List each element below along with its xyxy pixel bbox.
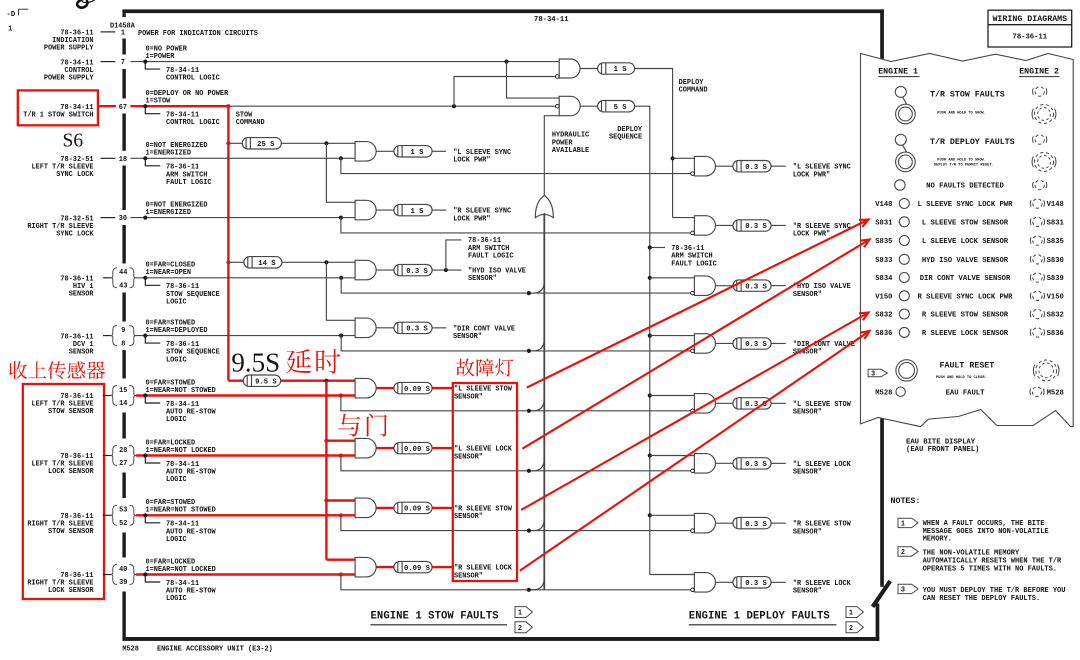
junction HIV-leader — [143, 276, 147, 280]
svg-text:ENGINE 2: ENGINE 2 — [1019, 68, 1059, 77]
svg-text:DIR CONT VALVE SENSOR: DIR CONT VALVE SENSOR — [920, 275, 1011, 283]
svg-text:0.3 S: 0.3 S — [745, 341, 767, 349]
pins 9/8 DCV 1 sensor — [111, 326, 117, 346]
svg-text:40: 40 — [119, 566, 127, 574]
and gate right bank "L SLEEVE STOW — [694, 394, 715, 414]
svg-text:ENGINE 1: ENGINE 1 — [878, 68, 918, 77]
junction stow-leader — [143, 104, 147, 108]
svg-text:SENSOR": SENSOR" — [454, 393, 483, 401]
junction sensor leader y574.5 — [143, 572, 147, 576]
annotation CJK fault lamp — [456, 358, 474, 376]
bubble U1 lower input — [556, 75, 560, 79]
svg-text:0.3 S: 0.3 S — [745, 223, 767, 231]
or gate hydraulic power — [535, 195, 553, 217]
timer 1 S (R sync) — [394, 204, 432, 215]
wire top input right gate y515.3 — [650, 514, 695, 516]
junction pin30-leader — [143, 216, 147, 220]
red highlight box fault lamps — [453, 383, 517, 581]
note flag 2 — [898, 547, 918, 556]
junction deploy seq tap y335.6 — [648, 334, 652, 338]
svg-text:(EAU FRONT PANEL): (EAU FRONT PANEL) — [906, 446, 979, 454]
wire DCV row — [136, 335, 355, 337]
junction deploy seq tap y277.8 — [648, 276, 652, 280]
svg-text:18: 18 — [119, 156, 127, 164]
timer 0.09 S #4 — [394, 561, 432, 572]
timer 1 S (deploy cmd) — [598, 63, 635, 74]
timer 0.3 S (dir) — [394, 322, 432, 333]
arc merge into OR line y410.8 — [531, 398, 544, 411]
svg-text:WHEN A FAULT OCCURS, THE BITE: WHEN A FAULT OCCURS, THE BITE — [923, 520, 1045, 528]
wire gate out dir — [376, 327, 394, 329]
arc merge into OR line y589.8 — [531, 577, 544, 590]
red junction feed Rstow — [324, 498, 328, 502]
ENGINE2 lamp deploy (dashed) — [1035, 135, 1044, 144]
timer 0.3 S right #5 — [733, 398, 771, 409]
leader arm switch fault logic — [446, 240, 462, 270]
bubble right gate y574.5 — [691, 588, 695, 592]
svg-text:S831: S831 — [875, 219, 893, 227]
branch HIV row — [341, 278, 692, 293]
red arrow L lock to S835 — [522, 240, 869, 449]
svg-text:53: 53 — [119, 507, 127, 515]
wire OR input line — [543, 213, 545, 590]
note flag 1 (deploy) — [846, 607, 863, 618]
svg-text:LOGIC: LOGIC — [166, 299, 187, 307]
svg-text:R SLEEVE LOCK SENSOR: R SLEEVE LOCK SENSOR — [922, 330, 1009, 338]
junction pin18-leader — [143, 156, 147, 160]
svg-text:V148: V148 — [875, 201, 892, 209]
svg-text:EAU BITE DISPLAY: EAU BITE DISPLAY — [906, 438, 976, 446]
svg-text:3: 3 — [901, 587, 905, 595]
red junction branch y515.3 — [339, 513, 343, 517]
note flag 1 (stow) — [515, 607, 532, 618]
pins 15/14 LEFT T/R SLEEVE STOW SENSOR — [111, 386, 117, 406]
bubble right gate y515.3 — [691, 529, 695, 533]
pins 44/43 HIV 1 sensor — [111, 268, 117, 288]
wire gate out L sync — [376, 150, 394, 152]
svg-text:T/R 1 STOW SWITCH: T/R 1 STOW SWITCH — [23, 111, 93, 119]
push button deploy — [896, 152, 916, 172]
svg-text:S833: S833 — [875, 257, 892, 265]
riser stow to gate U1 bubble — [454, 77, 556, 107]
and gate right bank "HYD ISO VALVE — [694, 276, 715, 296]
svg-text:1=NEAR=DEPLOYED: 1=NEAR=DEPLOYED — [146, 327, 208, 335]
sensor sublabel auto re-stow y515.3 — [145, 515, 160, 523]
svg-text:AUTOMATICALLY RESETS WHEN THE: AUTOMATICALLY RESETS WHEN THE T/R — [923, 557, 1062, 565]
wire top input right gate y335.6 — [650, 335, 695, 337]
red wire gate out y567.1 — [376, 566, 394, 568]
svg-text:PUSH AND HOLD TO SHOW.: PUSH AND HOLD TO SHOW. — [937, 159, 986, 163]
svg-text:L SLEEVE STOW SENSOR: L SLEEVE STOW SENSOR — [922, 219, 1009, 227]
arc merge into OR line y350.9 — [531, 338, 544, 351]
red wire gate out y507.9 — [376, 507, 394, 509]
red arrow R lock to S836 — [520, 331, 870, 571]
wire pin30 row — [130, 217, 355, 219]
svg-text:28: 28 — [119, 447, 127, 455]
wire U2 out — [581, 105, 598, 107]
timer 0.3 S right #7 — [733, 517, 771, 528]
svg-text:9.5 S: 9.5 S — [255, 378, 277, 386]
svg-text:FAULT RESET: FAULT RESET — [940, 362, 995, 371]
timer 0.3 S right #8 — [733, 577, 771, 588]
wire right 0.3S out #5 — [771, 402, 786, 404]
junction OR-merge y530.6 — [527, 529, 531, 533]
svg-text:-D: -D — [7, 11, 16, 19]
svg-text:9: 9 — [121, 327, 125, 335]
svg-text:SENSOR": SENSOR" — [793, 528, 822, 536]
svg-text:YOU MUST DEPLOY THE T/R BEFORE: YOU MUST DEPLOY THE T/R BEFORE YOU — [923, 587, 1066, 595]
wire right gate out y225.45 — [716, 224, 733, 226]
svg-text:1=NEAR=NOT STOWED: 1=NEAR=NOT STOWED — [146, 507, 216, 515]
pins 40/39 RIGHT T/R SLEEVE LOCK SENSOR — [111, 565, 117, 585]
branch sensor row y410.8 — [341, 396, 693, 411]
junction pin7-leader — [143, 60, 147, 64]
wire top input right gate y395.5 — [650, 395, 695, 397]
svg-text:0.09 S: 0.09 S — [404, 565, 431, 573]
wire OR output to U2 — [544, 116, 559, 196]
annotation CJK stow sensors — [9, 361, 27, 379]
svg-text:14 S: 14 S — [258, 260, 276, 268]
ENGINE2 button stow (dashed) — [1035, 105, 1054, 124]
junction hyd label tap — [444, 268, 448, 272]
wire stow row to gate U2 bubble — [228, 105, 555, 107]
svg-text:T/R DEPLOY FAULTS: T/R DEPLOY FAULTS — [930, 137, 1015, 147]
junction deploy seq tap y515.3 — [648, 513, 652, 517]
and gate L sleeve sync pwr — [355, 142, 376, 162]
svg-text:SENSOR: SENSOR — [69, 348, 95, 356]
junction OR-merge y589.8 — [527, 588, 531, 592]
and gate R sleeve sync pwr — [355, 200, 376, 220]
wire right 0.3S out #3 — [771, 285, 786, 287]
wire top input right gate y455.5 — [650, 455, 695, 457]
wire U1 out — [580, 68, 597, 70]
svg-text:THE NON-VOLATILE MEMORY: THE NON-VOLATILE MEMORY — [923, 550, 1020, 558]
svg-text:CONTROL LOGIC: CONTROL LOGIC — [166, 119, 220, 127]
riser pin7 to gate U2 — [507, 62, 560, 99]
timer 0.09 S #1 — [394, 382, 432, 393]
red elbow feed Rlock — [326, 559, 355, 561]
unit border right upper — [880, 9, 884, 586]
svg-text:0.3 S: 0.3 S — [745, 164, 767, 172]
HIV sublabel stow sequence logic — [145, 278, 160, 286]
svg-text:S830: S830 — [1047, 257, 1064, 265]
ENGINE2 fault reset (dashed) — [1036, 360, 1057, 381]
pin 18 left sync lock — [101, 157, 116, 159]
connector D1458A dashed line — [122, 13, 125, 17]
WIRING DIAGRAMS box — [988, 10, 1072, 47]
svg-text:ENGINE ACCESSORY UNIT (E3-2): ENGINE ACCESSORY UNIT (E3-2) — [157, 646, 273, 654]
wire gate out R sync — [376, 209, 394, 211]
svg-text:43: 43 — [119, 283, 127, 291]
svg-text:S832: S832 — [1047, 312, 1064, 320]
timer 5 S (deploy seq) — [598, 101, 635, 112]
svg-text:1=NEAR=NOT LOCKED: 1=NEAR=NOT LOCKED — [146, 447, 216, 455]
svg-text:1 S: 1 S — [411, 149, 425, 157]
red wire sensor row y515.3 — [136, 514, 355, 516]
svg-text:0.09 S: 0.09 S — [404, 446, 431, 454]
junction 25S out — [324, 141, 328, 145]
svg-text:FAULT LOGIC: FAULT LOGIC — [671, 260, 717, 268]
and gate right bank "R SLEEVE LOCK — [694, 573, 715, 593]
svg-text:NOTES:: NOTES: — [891, 497, 921, 506]
wire top input right gate y574.5 — [650, 574, 695, 576]
svg-text:2: 2 — [901, 549, 905, 557]
timer 0.3 S right #2 — [733, 220, 771, 231]
svg-text:3: 3 — [871, 371, 875, 379]
wire deploy command — [635, 69, 673, 218]
junction stow riser x454 — [452, 104, 456, 108]
svg-text:DEPLOY T/R TO PERMIT RESET.: DEPLOY T/R TO PERMIT RESET. — [934, 162, 994, 167]
svg-text:1: 1 — [518, 610, 522, 618]
svg-text:S832: S832 — [875, 312, 892, 320]
svg-text:POWER SUPPLY: POWER SUPPLY — [44, 74, 94, 82]
timer 0.3 S (hyd) — [394, 264, 432, 275]
svg-text:1=STOW: 1=STOW — [146, 98, 172, 106]
svg-text:1=ENERGIZED: 1=ENERGIZED — [146, 209, 192, 217]
svg-text:PUSH AND HOLD TO SHOW.: PUSH AND HOLD TO SHOW. — [937, 111, 986, 115]
svg-text:SENSOR": SENSOR" — [793, 291, 822, 299]
svg-text:WIRING DIAGRAMS: WIRING DIAGRAMS — [992, 15, 1067, 24]
wire right 0.3S out #4 — [771, 342, 786, 344]
svg-text:SENSOR": SENSOR" — [454, 572, 483, 580]
junction deploy seq tap y455.5 — [648, 453, 652, 457]
and gate 0.09 "L SLEEVE LOCK — [355, 438, 376, 458]
timer 0.3 S right #4 — [733, 338, 771, 349]
svg-text:LOCK PWR": LOCK PWR" — [453, 215, 490, 223]
svg-text:V150: V150 — [875, 293, 892, 301]
bubble right gate y455.5 — [691, 469, 695, 473]
ENGINE2 lamp stow (dashed) — [1035, 87, 1044, 96]
pins 28/27 LEFT T/R SLEEVE LOCK SENSOR — [111, 446, 117, 466]
svg-text:S836: S836 — [875, 330, 892, 338]
wire pin18 row — [130, 157, 355, 159]
svg-text:S839: S839 — [1047, 275, 1064, 283]
wire 1S to label — [432, 150, 446, 152]
wire right 0.3S out #6 — [771, 462, 786, 464]
note flag 3 (fault reset) — [868, 369, 887, 377]
svg-text:0.09 S: 0.09 S — [404, 506, 431, 514]
branch pin30 to right bank — [341, 218, 693, 233]
svg-text:CAN RESET THE DEPLOY FAULTS.: CAN RESET THE DEPLOY FAULTS. — [923, 595, 1041, 603]
svg-text:1: 1 — [849, 610, 853, 618]
wire right 0.3S out #2 — [771, 224, 786, 226]
svg-text:0.3 S: 0.3 S — [745, 283, 767, 291]
wire right gate out y343.45 — [716, 342, 733, 344]
svg-text:0.3 S: 0.3 S — [745, 521, 767, 529]
wire right gate out y285.65 — [716, 285, 733, 287]
svg-text:FAULT LOGIC: FAULT LOGIC — [468, 253, 514, 261]
wire right gate out y523.15 — [716, 522, 733, 524]
svg-text:CONTROL LOGIC: CONTROL LOGIC — [166, 75, 220, 83]
red wire 0.09S out #3 — [432, 507, 453, 509]
svg-text:SENSOR": SENSOR" — [793, 469, 822, 477]
connector pin 1 / indication power supply — [101, 31, 116, 33]
and gate right bank "R SLEEVE SYNC — [694, 216, 715, 236]
red arrow R stow to S832 — [521, 313, 868, 510]
svg-text:1: 1 — [8, 26, 13, 34]
svg-text:1: 1 — [901, 521, 905, 529]
svg-text:COMMAND: COMMAND — [679, 87, 708, 95]
junction pin18 branch — [339, 156, 343, 160]
svg-text:L SLEEVE LOCK SENSOR: L SLEEVE LOCK SENSOR — [922, 238, 1009, 246]
svg-text:LOGIC: LOGIC — [166, 595, 187, 603]
and gate 0.09 "R SLEEVE STOW — [355, 498, 376, 517]
red junction feed Llock — [324, 439, 328, 443]
svg-text:LOGIC: LOGIC — [166, 536, 187, 544]
red wire 0.09S out #2 — [432, 447, 453, 449]
svg-text:0.09 S: 0.09 S — [404, 386, 431, 394]
svg-text:SYNC LOCK: SYNC LOCK — [56, 230, 94, 238]
svg-text:STOW SENSOR: STOW SENSOR — [48, 408, 94, 416]
red junction branch y455.5 — [339, 453, 343, 457]
svg-text:V148: V148 — [1047, 201, 1064, 209]
svg-text:S835: S835 — [875, 238, 892, 246]
bubble right gate y335.6 — [691, 349, 695, 353]
wire right gate out y582.35 — [716, 581, 733, 583]
arc merge into OR line y470.8 — [531, 458, 544, 471]
svg-text:S836: S836 — [1047, 330, 1064, 338]
red arrow L stow to S831 — [527, 220, 869, 388]
red wire gate out y388.1 — [376, 387, 394, 389]
svg-text:S6: S6 — [63, 130, 84, 151]
branch pin18 to right bank — [341, 158, 693, 173]
svg-text:2: 2 — [518, 625, 522, 633]
wire 0.3S hyd out — [432, 269, 461, 271]
junction deploy cmd tap y158.3 — [671, 156, 675, 160]
red wire 0.09S out #1 — [432, 387, 453, 389]
svg-text:AVAILABLE: AVAILABLE — [552, 147, 589, 155]
bubble right gate y395.5 — [691, 409, 695, 413]
pins 53/52 RIGHT T/R SLEEVE STOW SENSOR — [111, 505, 117, 525]
svg-text:2: 2 — [849, 625, 853, 633]
and gate 0.09 "R SLEEVE LOCK — [355, 557, 376, 577]
svg-text:44: 44 — [119, 269, 127, 277]
red junction stow command — [226, 104, 230, 108]
and gate right bank "L SLEEVE LOCK — [694, 454, 715, 474]
riser 14S to DIR gate — [326, 262, 355, 320]
timer 0.3 S right #6 — [733, 458, 771, 469]
svg-text:S835: S835 — [1047, 238, 1064, 246]
red vertical stow command — [227, 106, 229, 381]
ENGINE2 lamp no faults — [1035, 180, 1044, 189]
svg-text:52: 52 — [119, 520, 127, 528]
timer 25 S — [242, 138, 281, 149]
svg-text:M528: M528 — [122, 646, 139, 654]
arc merge into OR line y530.6 — [531, 518, 544, 531]
svg-text:1: 1 — [121, 30, 125, 38]
wire gate out hyd — [376, 269, 394, 271]
wire right 0.3S out #7 — [771, 522, 786, 524]
svg-text:1 S: 1 S — [614, 66, 628, 74]
junction OR-merge y350.9 — [527, 349, 531, 353]
bubble right gate y158.3 — [691, 172, 695, 176]
svg-text:30: 30 — [119, 215, 127, 223]
pin7 sublabel control logic — [145, 62, 160, 70]
red wire 9.5S out — [281, 380, 356, 382]
svg-text:0.3 S: 0.3 S — [406, 326, 428, 334]
lamp circle stow — [895, 86, 906, 97]
svg-text:L SLEEVE SYNC LOCK PWR: L SLEEVE SYNC LOCK PWR — [918, 201, 1014, 209]
red junction branch y574.5 — [339, 572, 343, 576]
svg-text:PUSH AND HOLD TO CLEAR.: PUSH AND HOLD TO CLEAR. — [936, 376, 987, 380]
svg-text:EAU FAULT: EAU FAULT — [946, 389, 986, 397]
wire 1S to label R — [432, 209, 446, 211]
and gate right bank "DIR CONT VALVE — [694, 334, 715, 354]
annotation CJK AND gate — [338, 414, 360, 437]
svg-text:SYNC LOCK: SYNC LOCK — [56, 171, 94, 179]
svg-text:67: 67 — [119, 104, 127, 112]
red elbow feed Llock — [326, 440, 355, 442]
red elbow feed Rstow — [326, 499, 355, 501]
red junction 14S tap — [226, 260, 230, 264]
pin18 sublabel arm switch fault logic — [145, 158, 160, 166]
svg-text:V150: V150 — [1047, 293, 1064, 301]
junction 14S out — [324, 260, 328, 264]
red wire sensor row y395.5 — [136, 394, 355, 396]
svg-text:SENSOR": SENSOR" — [454, 513, 483, 521]
svg-text:25 S: 25 S — [257, 141, 275, 149]
svg-text:MESSAGE GOES INTO NON-VOLATILE: MESSAGE GOES INTO NON-VOLATILE — [923, 528, 1049, 536]
timer 14 S — [244, 257, 282, 268]
svg-text:LOGIC: LOGIC — [166, 476, 187, 484]
junction pin30 branch — [339, 216, 343, 220]
red wire sensor row y574.5 — [136, 573, 355, 575]
junction deploy seq arm tap — [648, 245, 652, 249]
pin67 sublabel control logic — [145, 106, 160, 114]
svg-text:1 S: 1 S — [411, 208, 425, 216]
svg-text:9.5S: 9.5S — [231, 348, 280, 378]
svg-text:LOCK PWR": LOCK PWR" — [793, 171, 830, 179]
svg-text:"R SLEEVE STOW: "R SLEEVE STOW — [793, 521, 852, 529]
pin 7 control power supply — [101, 61, 116, 63]
bubble right gate y217.6 — [691, 231, 695, 235]
svg-text:LOCK SENSOR: LOCK SENSOR — [48, 587, 94, 595]
red wire sensor row y455.5 — [136, 454, 355, 456]
junction sensor leader y395.5 — [143, 393, 147, 397]
wire 14S output — [282, 261, 355, 263]
bubble U2 middle input — [556, 104, 560, 108]
push button stow — [896, 104, 916, 124]
svg-text:1=NEAR=OPEN: 1=NEAR=OPEN — [146, 269, 192, 277]
svg-text:5 S: 5 S — [614, 104, 628, 112]
svg-text:R SLEEVE STOW SENSOR: R SLEEVE STOW SENSOR — [922, 312, 1009, 320]
svg-text:M528: M528 — [875, 389, 892, 397]
pin 30 right sync lock — [101, 217, 116, 219]
timer 0.09 S #3 — [394, 502, 432, 513]
branch DCV row — [341, 336, 692, 351]
svg-text:LOGIC: LOGIC — [166, 356, 187, 364]
junction OR-merge y410.8 — [527, 409, 531, 413]
junction sensor leader y515.3 — [143, 513, 147, 517]
wire 25S input — [228, 142, 242, 144]
zone bracket — [19, 9, 29, 15]
svg-text:14: 14 — [119, 400, 127, 408]
wire top input right gate y277.8 — [650, 277, 695, 279]
sensor sublabel auto re-stow y395.5 — [145, 396, 160, 404]
svg-text:SENSOR": SENSOR" — [793, 409, 822, 417]
sensor sublabel auto re-stow y455.5 — [145, 456, 160, 464]
red wire stow switch to pin 67 — [98, 105, 116, 107]
wire 14S input — [228, 261, 244, 263]
nand gate U1 deploy command — [559, 59, 580, 78]
svg-text:8: 8 — [121, 340, 125, 348]
unit border top — [122, 9, 884, 13]
svg-text:SENSOR": SENSOR" — [468, 275, 497, 283]
junction HIV branch — [339, 276, 343, 280]
EAU BITE display panel outline — [861, 54, 1074, 427]
and gate 0.09 "L SLEEVE STOW — [355, 378, 376, 398]
junction pin7-riser — [504, 60, 508, 64]
